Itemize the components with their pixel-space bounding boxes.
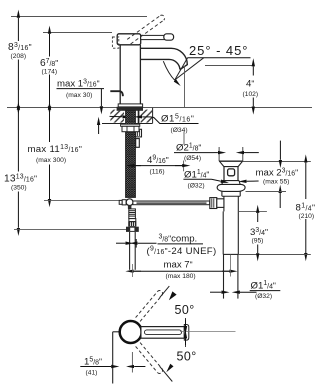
dashed raised lever [127,15,164,44]
faucet base gasket (dark) [117,107,143,111]
faucet base plate [118,104,142,107]
dimension max 11 13/16 (max 300) [49,110,51,199]
svg-text:(41): (41) [86,370,98,377]
spout outline [140,48,187,69]
svg-text:Ø11/4": Ø11/4" [251,280,276,291]
dimension Ø1 5/16 (Ø34) hole [110,116,199,123]
rotation arc arrow at spout tip [163,61,175,80]
reference line top of raised lever [11,16,147,18]
drain centerline [230,255,232,277]
dimension 13 13/16 (350) [17,110,19,228]
drain flange [217,184,245,191]
svg-text:25° - 45°: 25° - 45° [189,43,248,58]
dimension 3 3/4 (95) [239,211,267,213]
svg-text:4": 4" [246,79,254,90]
extension line at supply stop level [44,199,119,201]
supply connector thread [129,209,136,219]
svg-text:Ø11/4": Ø11/4" [184,169,209,180]
dimension max 2 3/16 (max 55) [243,161,311,163]
svg-text:(95): (95) [252,237,264,244]
drain body below flange [221,191,223,196]
dimension 8 1/4 (210) [305,163,307,253]
extension line at hose end (350) [14,228,126,230]
svg-text:(116): (116) [150,168,165,175]
arrowhead at lower dashed lever [166,364,173,372]
plan view wall stub to body [113,331,120,333]
reference line top of handle hub [43,32,112,34]
svg-text:(max 180): (max 180) [166,273,196,280]
faucet body column [119,45,121,104]
compression nut [126,227,139,232]
svg-text:(max 300): (max 300) [36,157,66,164]
dashed lever rotated up 50 [136,291,163,322]
mounting washer [121,124,140,126]
plan view wall line [112,332,114,384]
threaded shank [126,111,136,198]
angle arrows at solid lever tip [185,318,187,347]
dashed lever rotated down 50 [136,343,163,374]
svg-text:(174): (174) [42,68,58,75]
dimension Ø1 1/4 (Ø32) tailpipe [210,291,257,293]
svg-text:50°: 50° [177,350,197,364]
linkage ball joint [126,199,133,206]
svg-text:max 7": max 7" [164,259,193,270]
countertop surface line [7,107,312,109]
drain tailpiece upper [222,211,224,254]
dimension 8 3/16 (208) [17,18,19,106]
pop-up rod linkage clamp [119,200,122,204]
dimension 4 9/16 (116) spout reach [134,165,184,167]
svg-text:50°: 50° [175,303,195,317]
faucet hub (cartridge cap) [117,34,141,45]
plan view lever grip [184,325,189,341]
plan view lever centerline [180,331,236,333]
pop-up head window [228,169,235,176]
dimension 4 inch (102) [205,65,253,67]
drain tailpipe lower [223,254,225,298]
dimension 3/8 comp thread [116,239,157,248]
svg-text:(max 55): (max 55) [263,178,289,185]
supply tube [129,232,131,270]
plan view lever slot [145,330,182,335]
dimension max 7 (max 180) center to center [134,270,230,272]
svg-text:Ø21/8": Ø21/8" [176,142,201,153]
lever grip [164,34,174,40]
label 25-45 underline [188,57,251,59]
svg-text:(350): (350) [11,184,27,191]
svg-text:15/8": 15/8" [84,356,102,367]
drain lever knurled nut [210,198,217,209]
knurled nut [128,222,136,227]
supply tube centerline [132,264,134,277]
connector collar [129,219,136,222]
svg-text:(Ø32): (Ø32) [188,183,205,190]
svg-text:(Ø54): (Ø54) [184,155,201,162]
drain pop-up head [219,160,243,162]
svg-text:(210): (210) [299,213,315,220]
stream angle lines 25-45 [175,58,188,80]
lift rod guide block [136,129,142,137]
mounting nut [122,126,139,131]
plan view faucet body circle [120,321,142,343]
svg-text:(Ø34): (Ø34) [171,127,188,134]
svg-text:(max 30): (max 30) [66,92,92,99]
angle reference line upper [160,286,170,298]
svg-text:(102): (102) [243,91,259,98]
svg-text:(208): (208) [11,53,27,60]
dimension 6 7/8 (174) [49,34,51,106]
lever rod (horizontal) [141,35,166,39]
linkage stem [128,205,131,209]
drain lever collar [217,199,224,208]
plan view lever arm [141,327,184,339]
angle reference line lower [160,366,173,381]
plan view faucet centerline [131,352,133,373]
countertop cross-section [102,123,153,125]
lift rod lower section [136,139,140,148]
lift rod through counter [138,110,140,123]
drain head diameter extension lines [218,147,220,161]
dashed hub position [112,37,118,48]
pop-up rod knob [110,91,123,96]
spout outlet extension line [184,66,186,107]
tailpiece end extension line [238,254,310,256]
svg-text:(Ø32): (Ø32) [255,293,272,300]
horizontal clevis strap to drain [133,201,210,205]
arrowhead at upper dashed lever [169,291,177,300]
